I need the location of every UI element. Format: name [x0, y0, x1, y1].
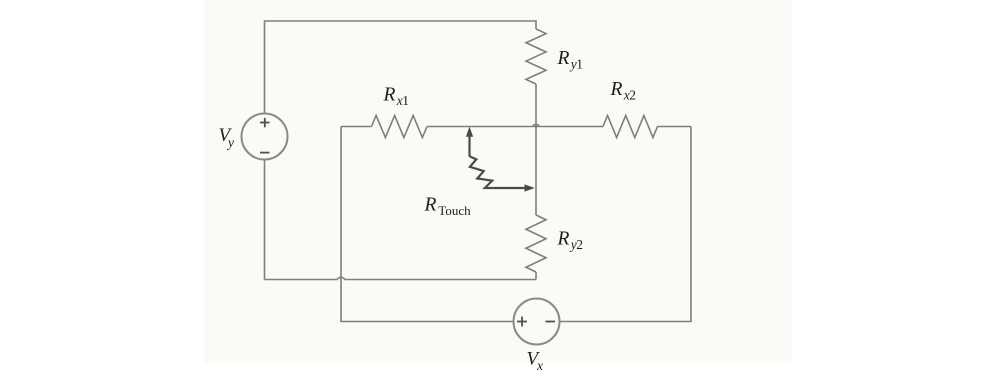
svg-text:2: 2 [576, 237, 583, 252]
resistor Ry1 [526, 29, 546, 84]
resistor Ry2 [526, 215, 546, 272]
svg-text:R: R [557, 229, 570, 250]
wire: lower rail from Vy to Ry2 bottom (hop bump at x=341) [265, 277, 537, 279]
svg-text:R: R [383, 85, 396, 106]
Vx minus sign [546, 321, 556, 323]
wire: Ry2 bottom stub [535, 272, 537, 280]
wire: left branch down from Rx1 left to Vx rail [341, 127, 514, 322]
Vy minus sign [260, 152, 270, 154]
svg-text:R: R [557, 48, 570, 69]
svg-text:R: R [424, 195, 437, 216]
svg-text:1: 1 [402, 93, 409, 108]
resistor Rx2 [603, 116, 658, 138]
wire: top wire from Vy top to Ry1 top [265, 21, 537, 114]
voltage source Vy [242, 114, 288, 160]
wire: center node down to Ry2 [535, 127, 537, 216]
Vx plus sign [517, 317, 527, 327]
potentiometer RTouch right-arrow to center branch [492, 184, 535, 191]
wire: right branch down from Rx2 right to Vx rail [560, 127, 692, 322]
svg-text:Touch: Touch [438, 203, 471, 218]
figure background tint [204, 0, 792, 363]
wire: Ry1 bottom to center node [535, 84, 537, 127]
resistor Rx1 [372, 116, 428, 138]
potentiometer RTouch wiper up-arrow [466, 127, 473, 157]
wire: middle horizontal rail left segment [341, 126, 372, 128]
node: center junction bump at (536,126.5) [533, 124, 540, 126]
Vy plus sign [260, 118, 270, 128]
wire: Vy bottom lead down to lower rail [264, 160, 266, 280]
svg-text:y: y [226, 135, 234, 150]
wire: middle rail between Rx1 and Rx2 [427, 126, 603, 128]
svg-text:x: x [536, 358, 543, 373]
potentiometer RTouch diagonal zigzag [470, 156, 493, 188]
svg-text:R: R [610, 79, 623, 100]
wire: middle rail right segment [658, 126, 692, 128]
svg-text:2: 2 [629, 88, 636, 103]
voltage source Vx [514, 299, 560, 345]
svg-text:1: 1 [576, 57, 583, 72]
